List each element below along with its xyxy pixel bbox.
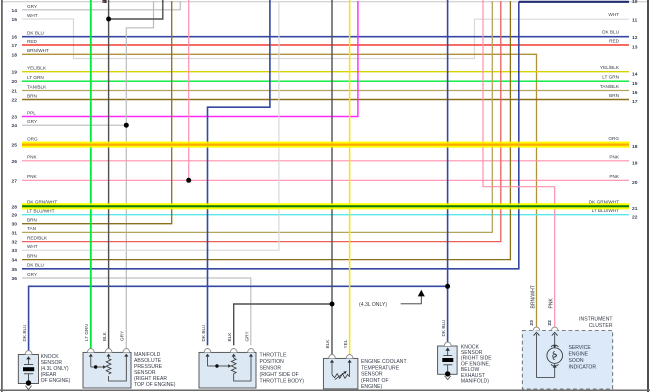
wire BRN pin 34 <box>12 1 511 264</box>
svg-text:14: 14 <box>632 71 638 77</box>
wire DK GRN/WHT pin 28 highlight overlay <box>22 203 629 209</box>
svg-text:THROTTLE BODY): THROTTLE BODY) <box>260 379 305 385</box>
wire DK GRN/WHT pin 28 / pin 21 (highlighted) <box>12 199 638 212</box>
svg-text:BLK: BLK <box>227 332 232 342</box>
svg-text:SOON: SOON <box>569 358 584 364</box>
svg-text:26: 26 <box>12 159 18 165</box>
svg-text:18: 18 <box>12 52 18 58</box>
svg-text:15: 15 <box>632 81 638 87</box>
svg-text:BLK: BLK <box>325 339 330 349</box>
svg-text:SENSOR: SENSOR <box>361 372 383 378</box>
svg-text:12: 12 <box>632 35 638 41</box>
wire BRN pin 30 <box>12 1 172 228</box>
svg-text:PNK: PNK <box>27 174 38 179</box>
wire YEL to ECT sensor <box>349 0 351 355</box>
svg-text:RED: RED <box>609 39 620 44</box>
svg-text:RED/BLK: RED/BLK <box>27 235 48 240</box>
svg-text:LT GRN: LT GRN <box>27 75 44 80</box>
junction GRY pin 24 <box>124 123 129 128</box>
svg-text:GRY: GRY <box>27 272 38 277</box>
svg-text:PNK: PNK <box>549 298 555 309</box>
svg-text:35: 35 <box>12 267 18 273</box>
wire WHT pin 15 / pin 11 <box>12 12 638 59</box>
svg-text:LT GRN: LT GRN <box>84 324 89 341</box>
svg-text:23: 23 <box>12 115 18 121</box>
svg-text:GRY: GRY <box>27 4 38 9</box>
svg-text:DK BLU: DK BLU <box>27 31 45 36</box>
wire PNK pin 26 / pin 19 <box>12 154 638 166</box>
svg-text:SENSOR: SENSOR <box>260 366 282 372</box>
svg-text:DK BLU: DK BLU <box>602 30 620 35</box>
lamp SERVICE ENGINE SOON indicator <box>547 345 563 366</box>
svg-text:(FRONT OF: (FRONT OF <box>361 378 389 384</box>
svg-text:13: 13 <box>632 45 638 51</box>
svg-text:DK BLU: DK BLU <box>22 324 27 342</box>
wire BRN pin 22 / pin 17 <box>12 93 638 105</box>
svg-text:CLUSTER: CLUSTER <box>589 323 613 329</box>
svg-text:BRN: BRN <box>609 93 619 98</box>
svg-text:YEL/BLK: YEL/BLK <box>27 66 47 71</box>
svg-text:(RIGHT SIDE OF: (RIGHT SIDE OF <box>260 372 299 378</box>
svg-text:WHT: WHT <box>27 13 38 18</box>
svg-text:TAN: TAN <box>27 226 36 231</box>
svg-text:RED: RED <box>27 39 38 44</box>
wire LT GRN to MAP sensor <box>90 0 92 349</box>
svg-text:11: 11 <box>632 18 637 24</box>
svg-text:DK BLU: DK BLU <box>201 324 206 342</box>
connector stub at top <box>102 0 106 3</box>
svg-text:34: 34 <box>12 258 18 264</box>
svg-text:INDICATOR: INDICATOR <box>569 364 597 370</box>
svg-text:WHT: WHT <box>27 244 38 249</box>
svg-text:24: 24 <box>12 123 18 129</box>
svg-text:(4.3L ONLY): (4.3L ONLY) <box>359 302 387 308</box>
svg-text:BRN: BRN <box>27 93 37 98</box>
svg-text:THROTTLE: THROTTLE <box>260 353 287 359</box>
wire GRY pin 24 to MAP sensor <box>12 1 154 351</box>
svg-text:WHT: WHT <box>608 12 619 17</box>
svg-text:29: 29 <box>12 213 18 219</box>
wire BRN/WHT pin 18 to instrument cluster pin 23 <box>12 48 537 327</box>
svg-text:32: 32 <box>12 240 18 246</box>
svg-text:TOP OF ENGINE): TOP OF ENGINE) <box>134 382 176 388</box>
instrument cluster caption <box>569 317 613 371</box>
svg-text:31: 31 <box>12 230 18 236</box>
svg-text:18: 18 <box>632 144 638 150</box>
4.3L ONLY annotation <box>359 290 425 308</box>
svg-text:OF ENGINE): OF ENGINE) <box>41 378 71 384</box>
instrument cluster box <box>522 327 612 389</box>
svg-text:ENGINE: ENGINE <box>569 351 589 357</box>
svg-text:BRN: BRN <box>27 218 37 223</box>
svg-text:10: 10 <box>632 0 638 5</box>
knock sensor 2 box <box>438 342 458 380</box>
wire ORG pin 25 highlight overlay <box>22 142 629 148</box>
svg-text:28: 28 <box>12 204 18 210</box>
svg-text:PNK: PNK <box>609 154 620 159</box>
svg-text:GRY: GRY <box>27 119 38 124</box>
wire LT GRN pin 20 / pin 15 <box>12 75 638 87</box>
wire YEL/BLK pin 19 / pin 14 <box>12 65 638 77</box>
wire DK BLU pin 16 / pin 12 <box>12 30 638 42</box>
wire BLK to TPS and ECT sensor <box>234 0 332 355</box>
TPS caption <box>260 353 305 385</box>
knock sensor 1 box <box>18 351 38 390</box>
svg-text:TEMPERATURE: TEMPERATURE <box>361 365 400 371</box>
svg-text:33: 33 <box>12 248 18 254</box>
svg-text:15: 15 <box>12 17 18 23</box>
wire BLK to MAP sensor <box>109 0 163 349</box>
MAP sensor caption <box>134 352 176 388</box>
svg-text:LT GRN: LT GRN <box>602 75 619 80</box>
svg-text:YEL/BLK: YEL/BLK <box>600 65 620 70</box>
wire PNK to instrument cluster pin 22 <box>483 0 555 327</box>
svg-text:TAN/BLK: TAN/BLK <box>600 84 620 89</box>
svg-text:36: 36 <box>12 276 18 282</box>
svg-text:22: 22 <box>632 214 638 220</box>
svg-text:DK BLU: DK BLU <box>441 319 446 337</box>
svg-text:30: 30 <box>12 222 18 228</box>
svg-text:17: 17 <box>12 43 18 49</box>
svg-text:PNK: PNK <box>27 155 38 160</box>
junction BLK <box>106 17 111 22</box>
svg-text:ORG: ORG <box>27 136 38 141</box>
svg-text:ORG: ORG <box>608 136 619 141</box>
svg-text:MANIFOLD): MANIFOLD) <box>461 379 489 385</box>
wire LT BLU/WHT pin 29 / pin 22 <box>12 208 638 220</box>
wire TAN/BLK pin 21 / pin 16 <box>12 84 638 96</box>
knock sensor 1 caption <box>41 354 71 384</box>
MAP sensor box <box>83 349 131 389</box>
junction BLK TPS/ECT <box>330 302 335 307</box>
svg-text:19: 19 <box>12 70 18 76</box>
svg-text:BRN: BRN <box>27 253 37 258</box>
svg-text:16: 16 <box>632 90 638 96</box>
svg-text:POSITION: POSITION <box>260 359 285 365</box>
svg-text:BRN/WHT: BRN/WHT <box>27 48 49 53</box>
wire DK BLU pin 35 / pin 10 <box>12 0 638 273</box>
ECT caption <box>361 359 407 390</box>
svg-text:22: 22 <box>12 98 18 104</box>
svg-text:21: 21 <box>12 89 18 95</box>
svg-text:22: 22 <box>547 320 553 326</box>
svg-text:25: 25 <box>12 143 18 149</box>
svg-text:GRY: GRY <box>244 331 249 342</box>
wire RED pin 17 / pin 13 <box>12 39 638 51</box>
wire ORG pin 25 / pin 18 (highlighted) <box>12 136 638 150</box>
svg-text:INSTRUMENT: INSTRUMENT <box>579 317 612 323</box>
svg-text:BRN/WHT: BRN/WHT <box>531 285 537 308</box>
wire TAN pin 31 <box>12 1 493 236</box>
wire GRY pin 36 to TPS <box>12 272 251 346</box>
knock sensor 2 caption <box>461 344 492 384</box>
svg-text:21: 21 <box>632 206 638 212</box>
svg-text:PNK: PNK <box>609 174 620 179</box>
wire RED/BLK pin 32 <box>12 1 501 246</box>
wire WHT pin 33 <box>12 1 279 254</box>
svg-text:SERVICE: SERVICE <box>569 345 592 351</box>
svg-text:19: 19 <box>632 160 638 166</box>
wire PNK pin 27 / pin 20 <box>12 0 638 186</box>
svg-text:GRY: GRY <box>120 330 125 341</box>
svg-text:20: 20 <box>632 180 638 186</box>
wire PPL pin 23 <box>12 1 358 121</box>
throttle position sensor box <box>199 349 256 389</box>
svg-text:14: 14 <box>12 8 18 14</box>
wire DK BLU knock sensor bus <box>29 0 448 351</box>
svg-text:23: 23 <box>529 320 535 326</box>
svg-text:ENGINE COOLANT: ENGINE COOLANT <box>361 359 407 365</box>
svg-text:17: 17 <box>632 99 638 105</box>
svg-text:ENGINE): ENGINE) <box>361 384 383 390</box>
svg-text:27: 27 <box>12 178 18 184</box>
wire DK BLU to TPS <box>208 0 270 345</box>
junction PNK pin 27 <box>186 178 191 183</box>
wire GRY pin 14 <box>12 1 181 14</box>
svg-text:PPL: PPL <box>27 110 36 115</box>
junction DK BLU knock bus <box>445 284 450 289</box>
svg-text:DK BLU: DK BLU <box>27 263 45 268</box>
svg-text:TAN/BLK: TAN/BLK <box>27 84 47 89</box>
svg-text:20: 20 <box>12 79 18 85</box>
engine coolant temperature sensor box <box>323 355 358 389</box>
svg-text:BLK: BLK <box>102 331 107 341</box>
svg-text:YEL: YEL <box>343 339 348 348</box>
svg-text:16: 16 <box>12 35 18 41</box>
